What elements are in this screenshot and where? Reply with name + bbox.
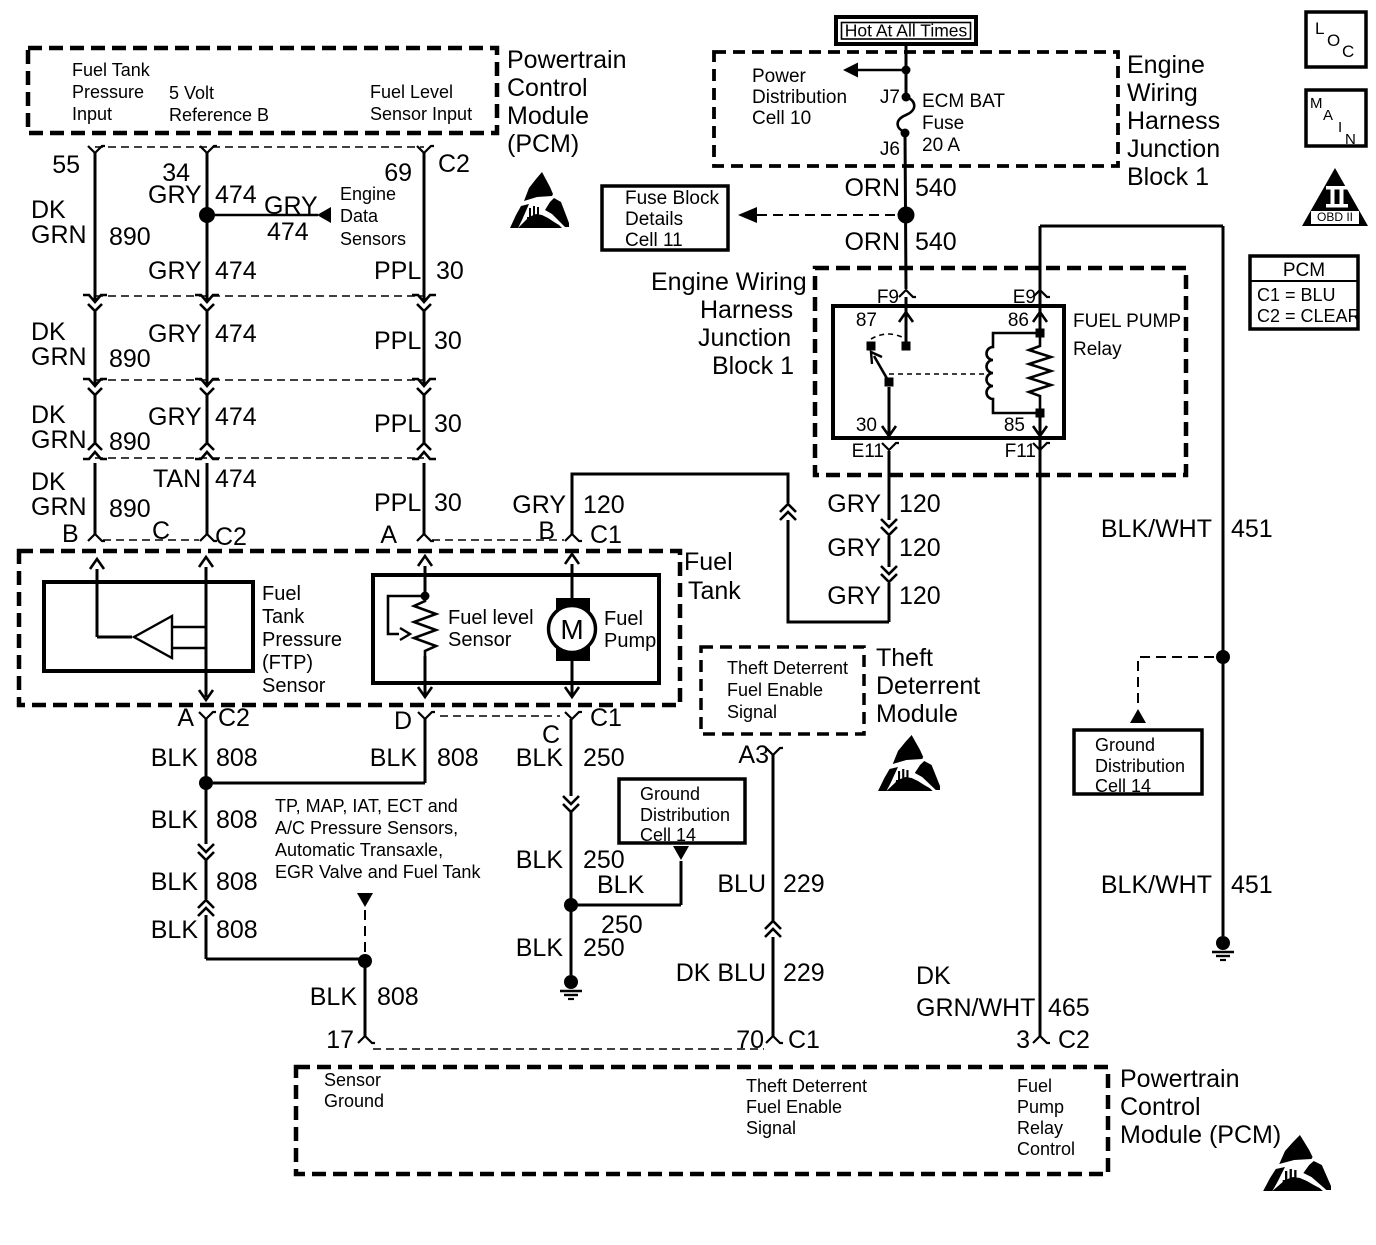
svg-text:Sensor: Sensor [324, 1070, 381, 1090]
svg-text:55: 55 [52, 151, 80, 179]
svg-text:Module (PCM): Module (PCM) [1120, 1121, 1281, 1149]
legend symbol: OBD II triangle [1302, 168, 1368, 226]
svg-text:5 Volt: 5 Volt [169, 83, 214, 103]
svg-text:Ground: Ground [640, 784, 700, 804]
svg-text:BLK: BLK [151, 806, 199, 834]
svg-text:BLK: BLK [516, 744, 564, 772]
svg-text:120: 120 [583, 491, 625, 519]
svg-text:Automatic Transaxle,: Automatic Transaxle, [275, 840, 443, 860]
svg-text:TP, MAP, IAT, ECT and: TP, MAP, IAT, ECT and [275, 796, 458, 816]
svg-text:890: 890 [109, 495, 151, 523]
contact (armature pivot) [885, 378, 894, 387]
dashed link to ground distribution (right) [1138, 657, 1214, 705]
wire BLK 250 branch to ground dist [571, 904, 681, 907]
svg-text:Theft Deterrent: Theft Deterrent [746, 1076, 867, 1096]
svg-text:BLK: BLK [597, 871, 645, 899]
wire BLK 808 to pin 17 [364, 961, 367, 1036]
ground G (BLK/WHT 451) [1216, 936, 1230, 950]
arrow out of FTP to pin A/C2 [199, 690, 213, 700]
pin B (fuel tank, FTP) [88, 534, 105, 541]
wire BLK/WHT 451 [1039, 226, 1042, 297]
svg-text:540: 540 [915, 228, 957, 256]
svg-text:BLK: BLK [151, 744, 199, 772]
in-line connector (BLU/DK BLU) [765, 929, 781, 937]
resistor (relay suppression) [1029, 333, 1051, 413]
svg-text:Block 1: Block 1 [1127, 163, 1209, 191]
potentiometer wiper dot [421, 592, 430, 601]
op-amp symbol (FTP sensor) [134, 616, 172, 658]
svg-text:DK: DK [31, 401, 66, 429]
svg-text:Fuel: Fuel [262, 583, 301, 605]
in-line connector (PPL row1/2) [412, 295, 436, 302]
svg-text:PPL: PPL [374, 257, 421, 285]
svg-text:Fuel Level: Fuel Level [370, 82, 453, 102]
svg-text:GRY: GRY [148, 403, 202, 431]
dashed link to fuse block details [757, 214, 897, 216]
svg-text:Theft: Theft [876, 644, 933, 672]
wire BLK 808 from pin D [424, 719, 427, 783]
wire GRY 474 (pin 34) [206, 153, 209, 301]
svg-text:Control: Control [507, 74, 588, 102]
svg-text:ORN: ORN [844, 174, 900, 202]
svg-text:Wiring: Wiring [1127, 79, 1198, 107]
svg-text:Cell 10: Cell 10 [752, 108, 811, 129]
svg-text:BLK: BLK [516, 846, 564, 874]
svg-text:30: 30 [436, 257, 464, 285]
svg-text:EGR Valve and Fuel Tank: EGR Valve and Fuel Tank [275, 862, 481, 882]
svg-text:890: 890 [109, 428, 151, 456]
pin A (fuel tank, level sensor) [417, 534, 434, 541]
svg-text:Ground: Ground [324, 1091, 384, 1111]
svg-text:Harness: Harness [700, 296, 793, 324]
junction (BLK 250 splice) [564, 898, 578, 912]
svg-text:Fuel Enable: Fuel Enable [727, 680, 823, 700]
svg-text:Pressure: Pressure [72, 82, 144, 102]
svg-text:GRY: GRY [827, 582, 881, 610]
svg-text:A3: A3 [738, 741, 769, 769]
in-line connector (BLK 250) [563, 796, 579, 804]
wiper arm [388, 596, 421, 634]
svg-text:85: 85 [1004, 415, 1025, 436]
contact (coil top) [1036, 329, 1045, 338]
svg-text:PCM: PCM [1283, 260, 1325, 281]
in-line connector (GRY 120 a) [881, 519, 897, 527]
ESD symbol (bottom right) [1263, 1135, 1331, 1191]
motor M (fuel pump) [556, 598, 590, 661]
pin 86 (relay) [1039, 297, 1042, 333]
ESD symbol (theft deterrent) [878, 735, 940, 791]
module box: Powertrain Control Module (PCM) bottom [296, 1067, 1108, 1174]
svg-text:229: 229 [783, 959, 825, 987]
svg-text:Block 1: Block 1 [712, 352, 794, 380]
wire BLK 808 (from FTP A) [205, 719, 208, 844]
svg-text:Input: Input [72, 104, 112, 124]
svg-text:465: 465 [1048, 994, 1090, 1022]
wire level sensor to pin D [424, 656, 427, 697]
svg-text:A: A [380, 521, 397, 549]
svg-text:C1: C1 [788, 1026, 820, 1054]
arrow down to pin C [565, 687, 579, 697]
svg-text:BLK: BLK [516, 934, 564, 962]
splice arrow to ground distribution [673, 846, 689, 860]
off-page arrow to Engine Data Sensors [317, 207, 331, 223]
relay coil [987, 333, 1036, 413]
svg-text:Fuel: Fuel [1017, 1076, 1052, 1096]
connector line C2 (PCM top) [95, 146, 424, 148]
svg-text:Relay: Relay [1017, 1118, 1063, 1138]
resistor (fuel level sender) [414, 596, 436, 656]
svg-text:N: N [1345, 131, 1356, 148]
junction (BLK 808 splice) [358, 954, 372, 968]
svg-text:Module: Module [507, 102, 589, 130]
svg-text:OBD II: OBD II [1317, 210, 1353, 224]
svg-text:Signal: Signal [746, 1118, 796, 1138]
connector dashes row3/4 [95, 457, 424, 459]
svg-text:474: 474 [267, 218, 309, 246]
legend box: PCM connectors [1250, 256, 1358, 329]
svg-text:A: A [177, 704, 194, 732]
svg-text:BLK/WHT: BLK/WHT [1101, 871, 1212, 899]
module box: Engine Wiring Harness Junction Block 1 (relay, dashed) [815, 268, 1186, 475]
wire fuel pump to pin C [571, 658, 574, 697]
svg-text:(FTP): (FTP) [262, 652, 313, 674]
svg-text:C2: C2 [1058, 1026, 1090, 1054]
in-line connector (GRY row2/3) [195, 379, 219, 386]
in-line connector (PPL row2/3) [412, 379, 436, 386]
svg-text:Deterrent: Deterrent [876, 672, 980, 700]
arrow down to pin D [418, 687, 432, 697]
svg-text:120: 120 [899, 582, 941, 610]
svg-text:Fuel: Fuel [604, 608, 643, 630]
svg-text:69: 69 [384, 159, 412, 187]
svg-text:70: 70 [736, 1026, 764, 1054]
svg-text:Fuel: Fuel [684, 548, 733, 576]
svg-text:Sensor Input: Sensor Input [370, 104, 472, 124]
module box: Theft Deterrent Module (dashed) [701, 647, 864, 734]
connector dashes PCM bottom [373, 1048, 764, 1050]
svg-text:Sensor: Sensor [262, 675, 326, 697]
svg-text:451: 451 [1231, 515, 1273, 543]
svg-text:A/C Pressure Sensors,: A/C Pressure Sensors, [275, 818, 458, 838]
in-line connector (GRY row3/4) [200, 443, 214, 450]
wire PPL 30 (pin 69) [423, 153, 426, 301]
svg-text:GRN: GRN [31, 221, 87, 249]
pin 30 (relay) [888, 387, 891, 436]
pin 87 (relay) [905, 297, 908, 342]
pin 34 (PCM C2) [200, 146, 217, 153]
wire BLK 250 (from pump C) [570, 719, 573, 796]
svg-text:474: 474 [215, 257, 257, 285]
svg-text:Control: Control [1120, 1093, 1201, 1121]
svg-text:30: 30 [434, 489, 462, 517]
svg-text:Engine: Engine [340, 184, 396, 204]
svg-text:Tank: Tank [262, 606, 305, 628]
svg-text:J7: J7 [880, 87, 900, 108]
svg-text:C2: C2 [218, 704, 250, 732]
pin 55 (PCM C2) [88, 146, 105, 153]
svg-text:Power: Power [752, 66, 807, 87]
in-line connector (GRY row1/2) [195, 295, 219, 302]
wire FTP inputs from pin C [199, 557, 213, 567]
svg-text:Junction: Junction [698, 324, 791, 352]
connector dashes tank top left [103, 539, 199, 541]
in-line connector (GRY 120 c) [780, 512, 796, 520]
svg-text:3: 3 [1016, 1026, 1030, 1054]
component box: Fuse Block Details Cell 11 [602, 186, 728, 250]
junction (ORN 540 / fuse block details) [898, 207, 915, 224]
svg-text:BLU: BLU [717, 870, 766, 898]
svg-text:DK: DK [916, 962, 951, 990]
svg-text:GRN/WHT: GRN/WHT [916, 994, 1035, 1022]
svg-text:A: A [1323, 107, 1333, 124]
wire battery feed [905, 44, 908, 93]
legend box: MAIN [1306, 90, 1366, 146]
pin E9 [1033, 290, 1050, 297]
svg-text:Signal: Signal [727, 702, 777, 722]
svg-text:Cell 14: Cell 14 [1095, 776, 1151, 796]
svg-text:229: 229 [783, 870, 825, 898]
in-line connector (DK GRN row1/2) [83, 295, 107, 302]
svg-text:30: 30 [856, 415, 877, 436]
svg-text:120: 120 [899, 490, 941, 518]
svg-text:Theft Deterrent: Theft Deterrent [727, 658, 848, 678]
svg-text:BLK: BLK [370, 744, 418, 772]
svg-text:Cell 14: Cell 14 [640, 825, 696, 845]
in-line connector (GRY 120 b) [881, 566, 897, 574]
legend box: LOC [1306, 12, 1366, 67]
svg-text:250: 250 [583, 934, 625, 962]
svg-text:87: 87 [856, 310, 877, 331]
svg-text:890: 890 [109, 223, 151, 251]
module box: Powertrain Control Module (PCM) top [28, 48, 497, 133]
svg-text:Powertrain: Powertrain [1120, 1065, 1240, 1093]
junction (BLK/WHT / ground dist) [1216, 650, 1230, 664]
svg-text:Sensor: Sensor [448, 629, 512, 651]
wire ORN 540 (fuse to junction) [905, 133, 906, 289]
switch throw arc (dashed) [871, 334, 906, 339]
splice arrow to ground distribution (right) [1130, 709, 1146, 723]
svg-text:B: B [62, 520, 79, 548]
svg-text:J6: J6 [880, 139, 900, 160]
connector dashes row1/2 [95, 295, 424, 297]
pin B (fuel pump) [565, 534, 582, 541]
svg-text:Distribution: Distribution [640, 805, 730, 825]
svg-text:Relay: Relay [1073, 339, 1122, 360]
svg-text:PPL: PPL [374, 489, 421, 517]
in-line connector (PPL row3/4) [417, 443, 431, 450]
svg-text:474: 474 [215, 465, 257, 493]
arrow to power distribution [843, 63, 858, 78]
svg-text:L: L [1315, 19, 1324, 38]
in-line connector (BLK 808) [198, 844, 214, 852]
pin E11 [882, 443, 899, 450]
svg-text:GRY: GRY [512, 491, 566, 519]
pin F11 [1033, 443, 1050, 450]
pin A (FTP bottom) [199, 712, 216, 719]
svg-text:Powertrain: Powertrain [507, 46, 627, 74]
svg-text:GRY: GRY [827, 490, 881, 518]
svg-text:ORN: ORN [844, 228, 900, 256]
svg-text:890: 890 [109, 345, 151, 373]
svg-text:Sensors: Sensors [340, 229, 406, 249]
svg-text:451: 451 [1231, 871, 1273, 899]
svg-text:GRY: GRY [148, 257, 202, 285]
pin 69 (PCM C2) [417, 146, 434, 153]
wire to power distribution [858, 69, 906, 72]
ground G (BLK 250) [564, 975, 578, 989]
junction (GRY 474 / engine data sensors) [199, 207, 215, 223]
svg-text:30: 30 [434, 410, 462, 438]
pin 17 (PCM bottom) [358, 1036, 375, 1043]
svg-text:M: M [1310, 95, 1323, 112]
svg-text:540: 540 [915, 174, 957, 202]
svg-text:DK: DK [31, 196, 66, 224]
svg-text:FUEL PUMP: FUEL PUMP [1073, 311, 1181, 332]
svg-text:Module: Module [876, 700, 958, 728]
svg-text:Pump: Pump [1017, 1097, 1064, 1117]
svg-text:Ground: Ground [1095, 735, 1155, 755]
svg-text:TAN: TAN [153, 465, 201, 493]
svg-text:ECM BAT: ECM BAT [922, 91, 1005, 112]
svg-text:17: 17 [326, 1026, 354, 1054]
svg-text:Engine: Engine [1127, 51, 1205, 79]
svg-text:GRY: GRY [264, 192, 318, 220]
svg-text:O: O [1327, 31, 1340, 50]
svg-text:GRN: GRN [31, 343, 87, 371]
svg-text:Junction: Junction [1127, 135, 1220, 163]
svg-text:Pump: Pump [604, 630, 656, 652]
arrow to fuse block details [738, 207, 757, 223]
wire GRY 120 (return to tank) [788, 520, 889, 622]
svg-text:Harness: Harness [1127, 107, 1220, 135]
junction (BLK 808 / D branch) [199, 776, 213, 790]
pin C (tank bottom) [565, 712, 582, 719]
svg-text:808: 808 [216, 868, 258, 896]
wire: branch to engine data sensors [215, 214, 318, 217]
pin 3 (PCM bottom) [1033, 1036, 1050, 1043]
svg-text:808: 808 [216, 806, 258, 834]
svg-text:C2: C2 [215, 523, 247, 551]
svg-text:GRY: GRY [827, 534, 881, 562]
wire FTP output to pin B [90, 559, 104, 569]
svg-text:BLK/WHT: BLK/WHT [1101, 515, 1212, 543]
svg-text:808: 808 [216, 744, 258, 772]
pin 85 (relay) [1039, 413, 1042, 438]
svg-text:C: C [1342, 42, 1354, 61]
in-line connector (DK GRN row2/3) [83, 379, 107, 386]
svg-text:Distribution: Distribution [752, 87, 847, 108]
svg-text:C2: C2 [438, 150, 470, 178]
component box: FTP sensor [44, 582, 253, 671]
pin C (fuel tank, FTP) [200, 534, 217, 541]
svg-text:F11: F11 [1005, 441, 1036, 462]
svg-text:BLK: BLK [310, 983, 358, 1011]
connector dashes row2/3 [95, 379, 424, 381]
module box: Power Distribution Cell 10 (dashed) [714, 52, 1118, 166]
wire DK GRN 890 (pin 55) [94, 153, 97, 301]
svg-text:30: 30 [434, 327, 462, 355]
in-line connector (DK GRN row3/4) [88, 443, 102, 450]
svg-text:PPL: PPL [374, 327, 421, 355]
svg-text:Fuse Block: Fuse Block [625, 188, 719, 209]
wire DK GRN/WHT 465 [1039, 438, 1042, 1036]
svg-text:474: 474 [215, 403, 257, 431]
in-line connector (BLK 808 up) [198, 908, 214, 916]
component box: Ground Distribution Cell 14 (right) [1074, 730, 1202, 794]
svg-text:Fuel Enable: Fuel Enable [746, 1097, 842, 1117]
module box: Fuel Tank (dashed) [19, 551, 680, 705]
svg-text:I: I [1338, 119, 1342, 136]
svg-text:E11: E11 [852, 441, 884, 462]
svg-text:DK: DK [31, 468, 66, 496]
svg-text:808: 808 [216, 916, 258, 944]
component box: Ground Distribution Cell 14 (left) [619, 779, 745, 843]
svg-text:C1: C1 [590, 521, 622, 549]
connector dashes tank top right [432, 539, 564, 541]
fuse ECM BAT 20 A [898, 97, 915, 132]
svg-text:120: 120 [899, 534, 941, 562]
svg-text:Fuel level: Fuel level [448, 607, 534, 629]
junction (power distribution tap) [902, 66, 911, 75]
svg-text:Details: Details [625, 209, 683, 230]
pin A3 (theft deterrent) [766, 748, 783, 755]
contact (87) [902, 342, 911, 351]
ESD symbol (top left PCM) [510, 172, 569, 228]
svg-text:M: M [560, 614, 583, 645]
svg-text:808: 808 [437, 744, 479, 772]
splice arrow to other sensors [357, 893, 373, 907]
component box: FUEL PUMP Relay [833, 306, 1064, 438]
svg-text:BLK: BLK [151, 868, 199, 896]
wire BLU 229 [772, 755, 775, 921]
svg-text:Fuse: Fuse [922, 113, 964, 134]
svg-text:GRY: GRY [148, 181, 202, 209]
svg-text:Cell 11: Cell 11 [625, 230, 683, 251]
svg-text:C1 = BLU: C1 = BLU [1257, 285, 1336, 305]
svg-text:GRN: GRN [31, 493, 87, 521]
svg-text:Data: Data [340, 206, 379, 226]
svg-text:Hot At All Times: Hot At All Times [845, 21, 968, 41]
wire GRY 120 (E11 down) [888, 451, 891, 520]
connector dashes tank bottom [440, 715, 560, 717]
svg-text:808: 808 [377, 983, 419, 1011]
link armature to coil (dashed) [889, 373, 984, 375]
svg-text:474: 474 [215, 320, 257, 348]
svg-text:(PCM): (PCM) [507, 130, 579, 158]
svg-text:250: 250 [583, 744, 625, 772]
dashed link to sensors [364, 910, 366, 953]
component box: fuel level sensor / fuel pump [373, 575, 659, 683]
svg-text:GRN: GRN [31, 426, 87, 454]
svg-text:B: B [538, 517, 555, 545]
svg-text:Control: Control [1017, 1139, 1075, 1159]
pin F9 [899, 290, 916, 297]
svg-text:86: 86 [1008, 310, 1029, 331]
pin D (tank bottom) [418, 712, 435, 719]
svg-text:C2 = CLEAR: C2 = CLEAR [1257, 306, 1361, 326]
contact (switch fixed) [867, 342, 876, 351]
svg-text:20 A: 20 A [922, 135, 960, 156]
switch armature (relay) [874, 356, 889, 382]
svg-text:C1: C1 [590, 704, 622, 732]
svg-text:Tank: Tank [688, 577, 741, 605]
contact (coil bottom) [1036, 409, 1045, 418]
svg-text:Distribution: Distribution [1095, 756, 1185, 776]
svg-text:Reference B: Reference B [169, 105, 269, 125]
wire pin B to fuel pump [565, 554, 579, 564]
svg-text:BLK: BLK [151, 916, 199, 944]
wire pin A to level sensor [418, 556, 432, 566]
